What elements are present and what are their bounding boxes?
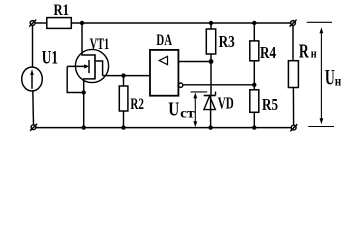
svg-text:VT1: VT1 <box>90 36 110 53</box>
svg-text:н: н <box>335 75 342 90</box>
tick Un top reference <box>307 21 332 23</box>
wire bottom rail <box>36 127 291 129</box>
source lead <box>84 79 95 128</box>
label Ust <box>168 98 195 121</box>
wire R2 top lead <box>123 76 125 86</box>
wire inverting input to divider node <box>183 84 254 86</box>
svg-text:R5: R5 <box>262 95 278 114</box>
svg-text:R2: R2 <box>130 96 144 113</box>
resistor Rn <box>288 61 298 88</box>
label Rn <box>299 40 317 62</box>
tick Ust top reference <box>191 91 208 93</box>
wire R5 bottom lead <box>253 112 255 127</box>
wire Rn bottom lead <box>292 88 294 126</box>
resistor R3 <box>206 29 215 54</box>
zener diode VD <box>204 92 216 110</box>
node junction R3/VD <box>209 59 214 64</box>
wire R4 bottom lead <box>253 61 255 90</box>
wire VD bottom lead <box>210 96 212 128</box>
wire VD branch upper <box>210 62 212 96</box>
node junction divider R4/R5 <box>252 83 256 87</box>
arrow Ust measurement <box>193 92 197 127</box>
inverting input bubble <box>178 83 182 87</box>
op-amp DA <box>150 50 178 96</box>
wire R2 bottom lead <box>123 111 125 128</box>
tick Un bottom reference <box>308 126 334 128</box>
svg-text:н: н <box>311 45 317 60</box>
svg-text:R4: R4 <box>260 43 276 62</box>
svg-text:U1: U1 <box>42 47 58 68</box>
svg-text:VD: VD <box>218 93 234 112</box>
resistor R5 <box>250 90 259 113</box>
gate electrode bar <box>88 60 90 73</box>
terminal input bottom-left <box>30 124 37 131</box>
svg-text:U: U <box>325 64 335 89</box>
wire R3 bottom lead <box>210 54 212 62</box>
svg-text:R3: R3 <box>219 32 235 51</box>
node junction R2 top <box>121 73 125 77</box>
arrow Un measurement <box>320 27 324 124</box>
drain lead <box>82 25 95 56</box>
channel <box>94 54 96 79</box>
wire VT1 to op-amp input <box>103 75 150 77</box>
wire Rn top lead <box>292 25 294 60</box>
resistor R1 <box>47 18 72 29</box>
label Un <box>325 64 341 89</box>
node junction R1/VT1 <box>80 21 84 25</box>
node junction R3 top <box>209 21 213 25</box>
node gate-source junction <box>82 90 86 94</box>
svg-text:U: U <box>168 98 179 120</box>
source U1 <box>22 67 43 91</box>
terminal input top-left <box>29 20 36 27</box>
svg-text:R: R <box>299 40 309 62</box>
node junction VD bottom rail <box>208 125 212 129</box>
svg-text:DA: DA <box>156 32 172 49</box>
wire R3 top lead <box>210 23 212 29</box>
node junction VT1 source bottom rail <box>82 125 86 129</box>
terminal output top-right <box>290 20 297 27</box>
wire top rail after R1 <box>71 22 290 24</box>
wire top rail <box>35 22 47 24</box>
node junction R4 top <box>252 21 256 25</box>
svg-text:R1: R1 <box>54 2 70 19</box>
resistor R4 <box>250 41 259 61</box>
substrate lead <box>95 61 103 76</box>
wire R4 top lead <box>253 23 255 41</box>
node junction R5 bottom rail <box>252 125 256 129</box>
node junction R2 bottom rail <box>121 125 125 129</box>
resistor R2 <box>119 86 128 111</box>
wire U1 branch top <box>32 25 34 67</box>
wire DA output to node <box>178 61 211 63</box>
gate lead with arrow <box>67 65 85 67</box>
svg-text:ст: ст <box>180 106 195 121</box>
gate wire loop to bottom node <box>67 66 84 92</box>
transistor VT1 <box>67 25 108 128</box>
wire U1 branch bottom <box>32 91 35 125</box>
terminal output bottom-right <box>290 124 297 131</box>
